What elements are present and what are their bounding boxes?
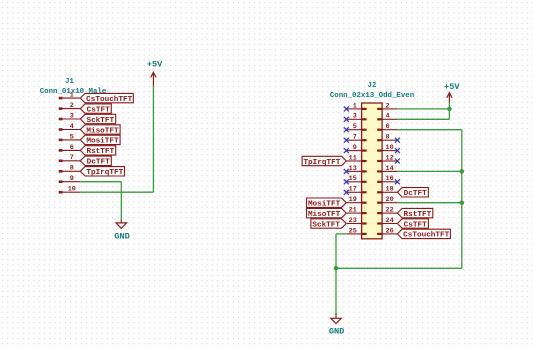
wire J2 pin 20 horizontal <box>397 202 461 204</box>
svg-text:RstTFT: RstTFT <box>404 211 432 219</box>
global label SckTFT (J2 pin 23) <box>311 219 346 230</box>
no-connect X on J2 pin 17 <box>344 190 349 195</box>
global label MosiTFT (J1 pin 5) <box>80 135 120 146</box>
global label TpIrqTFT (J1 pin 8) <box>80 167 124 178</box>
power symbol +5V (left) <box>147 59 163 85</box>
J2 pin 8 <box>377 134 397 142</box>
J2 pin 16 <box>377 175 397 183</box>
global label CsTouchTFT (J1 pin 1) <box>80 93 133 104</box>
svg-text:MisoTFT: MisoTFT <box>86 127 119 135</box>
svg-text:4: 4 <box>70 123 74 131</box>
svg-text:23: 23 <box>349 217 357 225</box>
wire J2 pin 4 vertical up to junction <box>448 109 450 119</box>
J2 pin 13 <box>346 165 366 173</box>
no-connect X on J2 pin 15 <box>344 179 349 184</box>
svg-text:25: 25 <box>349 227 357 235</box>
J2 pin 3 <box>346 113 366 121</box>
svg-text:CsTouchTFT: CsTouchTFT <box>403 232 450 240</box>
J1 pin 5 <box>59 133 81 141</box>
svg-text:RstTFT: RstTFT <box>86 148 114 156</box>
J2 pin 12 <box>377 154 397 162</box>
J2 pin 21 <box>346 207 366 215</box>
junction at J2 pin 2 / +5V <box>447 107 452 112</box>
svg-text:3: 3 <box>70 112 74 120</box>
connector J2 value label Conn_02x13_Odd_Even <box>330 92 414 100</box>
svg-text:10: 10 <box>386 144 394 152</box>
svg-text:MisoTFT: MisoTFT <box>308 211 341 219</box>
global label SckTFT (J1 pin 3) <box>80 114 115 125</box>
global label MisoTFT (J2 pin 21) <box>307 208 347 219</box>
svg-text:7: 7 <box>353 134 357 142</box>
svg-text:6: 6 <box>70 144 74 152</box>
svg-text:5: 5 <box>353 123 357 131</box>
wire J2 pin 4 horizontal <box>397 118 449 120</box>
J1 pin 3 <box>59 112 81 120</box>
svg-text:1: 1 <box>353 102 357 110</box>
svg-text:+5V: +5V <box>147 59 163 69</box>
no-connect X on J2 pin 7 <box>344 138 349 143</box>
wire J1 pin 9 horizontal <box>80 181 121 183</box>
J2 pin 9 <box>346 144 366 152</box>
svg-text:CsTFT: CsTFT <box>404 221 427 229</box>
svg-text:21: 21 <box>349 207 357 215</box>
no-connect X on J2 pin 10 <box>395 148 400 153</box>
junction at J2 pin 14 / right bus <box>460 169 465 174</box>
J2 pin 1 <box>346 102 366 110</box>
svg-text:5: 5 <box>70 133 74 141</box>
svg-text:2: 2 <box>386 102 390 110</box>
svg-text:9: 9 <box>353 144 357 152</box>
connector J2 body <box>362 103 383 239</box>
svg-text:J1: J1 <box>65 78 74 86</box>
no-connect X on J2 pin 13 <box>344 169 349 174</box>
wire J2 pin 14 horizontal <box>397 170 461 172</box>
J2 pin 15 <box>346 175 366 183</box>
no-connect X on J2 pin 9 <box>344 148 349 153</box>
svg-text:11: 11 <box>349 154 357 162</box>
no-connect X on J2 pin 5 <box>344 127 349 132</box>
global label DcTFT (J1 pin 7) <box>80 156 111 167</box>
no-connect X on J2 pin 8 <box>395 138 400 143</box>
svg-text:7: 7 <box>70 154 74 162</box>
junction at J2 pin 20 / right bus <box>460 200 465 205</box>
svg-text:SckTFT: SckTFT <box>312 221 340 229</box>
global label DcTFT (J2 pin 18) <box>397 188 428 199</box>
svg-text:CsTouchTFT: CsTouchTFT <box>86 96 133 104</box>
svg-text:TpIrqTFT: TpIrqTFT <box>303 159 340 167</box>
svg-text:+5V: +5V <box>444 82 460 92</box>
svg-text:12: 12 <box>386 154 394 162</box>
wire J1 pin 10 vertical up to +5V <box>152 86 154 193</box>
wire +5V stub (right) <box>448 102 450 109</box>
global label CsTouchTFT (J2 pin 26) <box>397 229 450 240</box>
svg-text:16: 16 <box>386 175 394 183</box>
svg-text:6: 6 <box>386 123 390 131</box>
svg-text:17: 17 <box>349 186 357 194</box>
wire J2 pin 25 vertical <box>335 234 337 268</box>
power symbol GND (right) <box>329 314 344 337</box>
svg-text:MosiTFT: MosiTFT <box>86 138 119 146</box>
svg-text:13: 13 <box>349 165 357 173</box>
J2 pin 22 <box>377 207 397 215</box>
wire J1 pin 10 horizontal <box>80 191 153 193</box>
wire J2 pin 6 horizontal <box>397 129 461 131</box>
svg-text:3: 3 <box>353 113 357 121</box>
svg-text:DcTFT: DcTFT <box>404 190 427 198</box>
J2 pin 23 <box>346 217 366 225</box>
svg-text:TpIrqTFT: TpIrqTFT <box>86 169 123 177</box>
global label CsTFT (J2 pin 24) <box>397 219 428 230</box>
J2 pin 17 <box>346 186 366 194</box>
J1 pin 2 <box>59 102 81 110</box>
global label TpIrqTFT (J2 pin 11) <box>302 156 346 167</box>
global label CsTFT (J1 pin 2) <box>80 104 111 115</box>
connector J1 value label Conn_01x10_Male <box>40 88 107 96</box>
wire J1 pin 9 vertical down to GND <box>120 182 122 220</box>
svg-text:18: 18 <box>386 186 394 194</box>
global label MisoTFT (J1 pin 4) <box>80 125 120 136</box>
svg-text:GND: GND <box>329 327 344 337</box>
J1 pin 10 <box>59 186 81 194</box>
no-connect X on J2 pin 16 <box>395 179 400 184</box>
svg-text:14: 14 <box>386 165 394 173</box>
svg-text:4: 4 <box>386 113 390 121</box>
svg-text:8: 8 <box>386 134 390 142</box>
J2 pin 24 <box>377 217 397 225</box>
wire J2 pin 2 to +5V junction <box>397 108 449 110</box>
J2 pin 7 <box>346 134 366 142</box>
power symbol +5V (right) <box>444 82 460 103</box>
J2 pin 19 <box>346 196 366 204</box>
svg-text:9: 9 <box>70 175 74 183</box>
power symbol GND (left) <box>114 219 129 241</box>
wire bottom horizontal to GND net <box>336 267 462 269</box>
svg-text:GND: GND <box>114 231 129 241</box>
J1 pin 7 <box>59 154 81 162</box>
svg-text:2: 2 <box>70 102 74 110</box>
J2 pin 18 <box>377 186 397 194</box>
no-connect X on J2 pin 12 <box>395 159 400 164</box>
svg-text:Conn_02x13_Odd_Even: Conn_02x13_Odd_Even <box>330 92 414 100</box>
J1 pin 6 <box>59 144 81 152</box>
J2 pin 25 <box>346 227 366 235</box>
J2 pin 6 <box>377 123 397 131</box>
wire down to GND (right) <box>335 268 337 313</box>
svg-text:8: 8 <box>70 165 74 173</box>
svg-text:19: 19 <box>349 196 357 204</box>
svg-text:15: 15 <box>349 175 357 183</box>
svg-text:26: 26 <box>386 227 394 235</box>
J1 pin 9 <box>59 175 81 183</box>
J1 pin 1 <box>59 92 81 100</box>
J2 pin 14 <box>377 165 397 173</box>
J1 pin 8 <box>59 165 81 173</box>
J2 pin 20 <box>377 196 397 204</box>
J2 pin 26 <box>377 227 397 235</box>
global label RstTFT (J2 pin 22) <box>397 208 432 219</box>
global label MosiTFT (J2 pin 19) <box>307 198 347 209</box>
connector J2 reference label <box>368 82 377 90</box>
connector J1 reference label <box>65 78 74 86</box>
svg-text:10: 10 <box>68 186 76 194</box>
J2 pin 10 <box>377 144 397 152</box>
svg-text:CsTFT: CsTFT <box>87 106 110 114</box>
wire right bus vertical <box>461 130 463 269</box>
svg-text:24: 24 <box>386 217 394 225</box>
svg-text:DcTFT: DcTFT <box>87 159 110 167</box>
J2 pin 2 <box>377 102 397 110</box>
J2 pin 11 <box>346 154 366 162</box>
svg-text:1: 1 <box>70 92 74 100</box>
global label RstTFT (J1 pin 6) <box>80 146 115 157</box>
svg-text:MosiTFT: MosiTFT <box>308 201 341 209</box>
J2 pin 5 <box>346 123 366 131</box>
svg-text:SckTFT: SckTFT <box>86 117 114 125</box>
svg-text:22: 22 <box>386 207 394 215</box>
no-connect X on J2 pin 1 <box>344 106 349 111</box>
no-connect X on J2 pin 3 <box>344 117 349 122</box>
svg-text:J2: J2 <box>368 82 377 90</box>
wire J2 pin 25 horizontal <box>336 233 346 235</box>
junction at GND net corner <box>334 266 339 271</box>
J2 pin 4 <box>377 113 397 121</box>
svg-text:20: 20 <box>386 196 394 204</box>
J1 pin 4 <box>59 123 81 131</box>
